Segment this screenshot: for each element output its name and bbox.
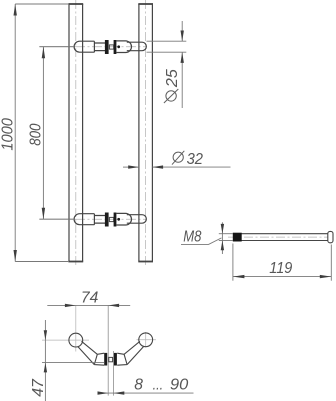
svg-text:119: 119 bbox=[269, 260, 292, 277]
svg-text:M8: M8 bbox=[183, 229, 201, 246]
left arm bbox=[78, 341, 104, 365]
flange 1 bbox=[105, 40, 109, 54]
set screw dot bbox=[117, 45, 120, 48]
right circle bbox=[139, 333, 153, 347]
stud centerline bbox=[228, 236, 335, 238]
right arm bbox=[117, 341, 143, 365]
svg-text:47: 47 bbox=[30, 378, 47, 397]
svg-text:...: ... bbox=[153, 377, 164, 394]
svg-text:800: 800 bbox=[28, 123, 45, 146]
mount flanges & nut bbox=[104, 353, 107, 366]
svg-text:25: 25 bbox=[164, 69, 181, 88]
svg-text:8: 8 bbox=[134, 377, 143, 394]
right tube bbox=[138, 4, 153, 262]
nut bbox=[109, 45, 113, 49]
left tube bbox=[68, 4, 83, 262]
end cap bbox=[328, 231, 333, 242]
left tube centerline bbox=[75, 0, 77, 265]
neck bbox=[94, 43, 105, 51]
centerlines bbox=[42, 305, 156, 351]
top connector centerline bbox=[39, 46, 75, 48]
near-side pill bbox=[74, 41, 94, 52]
far-side rod bbox=[127, 42, 147, 51]
cylinder bbox=[116, 41, 131, 53]
stud rod bbox=[233, 234, 328, 241]
flange 2 bbox=[114, 40, 117, 54]
left circle bbox=[69, 333, 83, 347]
glass lines bbox=[108, 305, 113, 395]
svg-text:32: 32 bbox=[187, 151, 204, 168]
top connector bbox=[74, 40, 146, 54]
bottom connector (mirror of top at y=219.2) bbox=[74, 213, 146, 227]
svg-text:74: 74 bbox=[81, 290, 99, 307]
svg-text:1000: 1000 bbox=[0, 118, 17, 151]
bottom connector centerline bbox=[39, 218, 75, 220]
right tube centerline bbox=[145, 0, 147, 265]
svg-text:90: 90 bbox=[170, 377, 189, 394]
M8 dim bbox=[181, 222, 233, 254]
thread block bbox=[233, 233, 242, 242]
